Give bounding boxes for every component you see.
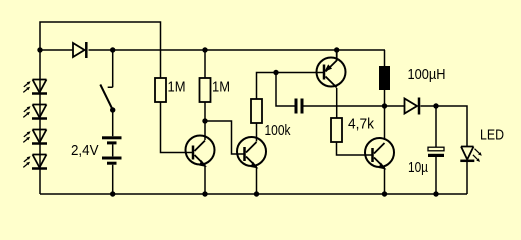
LED arrows bbox=[473, 149, 482, 162]
wire Q4 emitter bbox=[384, 169, 386, 194]
wire Q1 emitter bbox=[204, 166, 206, 194]
wire rail to L1 bbox=[384, 50, 386, 66]
svg-text:LED: LED bbox=[480, 127, 504, 144]
resistor R3 bbox=[251, 99, 262, 123]
wire node B down to capacitor C1 bbox=[276, 73, 295, 107]
wire bottom rail bbox=[40, 193, 467, 195]
wire C2 branch bbox=[435, 106, 437, 194]
transistor Q4 bbox=[365, 138, 394, 169]
solar arrows D3 bbox=[23, 81, 30, 92]
wire switch branch bbox=[108, 50, 113, 87]
wire R4 bottom to Q4 base bbox=[337, 142, 374, 155]
wire C1 to node C bbox=[304, 105, 385, 107]
svg-text:10µ: 10µ bbox=[408, 159, 428, 176]
transistor Q1 bbox=[186, 136, 215, 167]
svg-text:4,7k: 4,7k bbox=[348, 116, 374, 133]
solar cell D4 bbox=[32, 105, 47, 119]
wire Q2 emitter bbox=[256, 168, 258, 194]
wire top rail bbox=[40, 49, 385, 51]
transistor Q3 PNP bbox=[317, 50, 346, 88]
wire top bypass loop bbox=[40, 22, 161, 78]
wire switch to battery bbox=[112, 110, 114, 194]
wire R3 top to Q3 base bbox=[257, 73, 325, 100]
wire L1 to node C bbox=[384, 90, 386, 140]
solar cell D5 bbox=[32, 130, 47, 144]
svg-text:1M: 1M bbox=[212, 79, 230, 96]
svg-text:100µH: 100µH bbox=[408, 66, 446, 83]
resistor R1 bbox=[155, 78, 166, 102]
solar cell D3 bbox=[32, 80, 47, 94]
svg-text:1M: 1M bbox=[168, 79, 186, 96]
wire R3 bottom to Q2 collector bbox=[256, 123, 258, 142]
wire R2 top bbox=[204, 50, 206, 78]
solar cell D6 bbox=[32, 155, 47, 169]
switch S1 pivot bbox=[110, 107, 115, 112]
wire R2 bottom / Q1 collector bbox=[204, 102, 206, 140]
LED D7 bbox=[460, 147, 474, 161]
capacitor C1 bbox=[295, 99, 304, 114]
switch S1 lever bbox=[100, 85, 113, 111]
transistor Q2 bbox=[237, 137, 266, 168]
battery BT1 2,4V bbox=[102, 136, 122, 164]
solar arrows D6 bbox=[23, 156, 30, 167]
diode D2 bbox=[405, 98, 420, 115]
wire R1 bottom to Q1 base bbox=[161, 102, 194, 153]
svg-text:2,4V: 2,4V bbox=[71, 142, 99, 159]
wire node to Q2 base bbox=[205, 121, 245, 154]
wire solar cell column bbox=[39, 50, 41, 194]
wire LED to bottom rail bbox=[466, 161, 468, 194]
wire node C to D2 bbox=[385, 105, 405, 107]
inductor L1 bbox=[379, 66, 390, 90]
wire Q3 collector to R4 bbox=[336, 88, 338, 118]
solar arrows D4 bbox=[23, 106, 30, 117]
svg-text:100k: 100k bbox=[265, 122, 291, 139]
wire D2 to LED branch bbox=[421, 106, 468, 146]
resistor R2 bbox=[200, 78, 211, 102]
diode D1 bbox=[73, 42, 86, 58]
solar arrows D5 bbox=[23, 131, 30, 142]
resistor R4 bbox=[331, 118, 342, 142]
capacitor C2 electrolytic bbox=[428, 147, 444, 151]
